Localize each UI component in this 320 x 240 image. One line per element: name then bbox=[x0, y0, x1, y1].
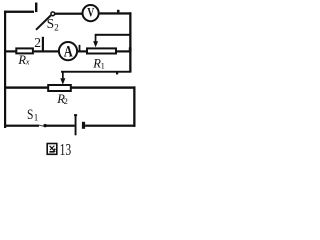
rheostat R1 slider arrow bbox=[93, 35, 98, 47]
voltmeter U-V bbox=[83, 5, 99, 22]
label Rx bbox=[17, 53, 29, 67]
node junction dot on top right wire bbox=[117, 10, 120, 13]
wire: row3 left segment bbox=[4, 86, 48, 88]
wire: row2 segment R1 to right border bbox=[116, 50, 130, 52]
svg-text:S: S bbox=[47, 16, 55, 31]
svg-text:S: S bbox=[27, 107, 33, 123]
wire: bottom row segment from border to S1 bbox=[4, 125, 39, 127]
node 2 terminal tick bbox=[42, 37, 44, 51]
wire: top row right segment bbox=[100, 12, 132, 14]
node tick at ammeter right terminal bbox=[79, 45, 81, 51]
caption character tu (figure) drawn as strokes bbox=[47, 144, 57, 155]
wire: rheostat R2 slider bracket top bbox=[61, 71, 131, 73]
switch S1 blade bbox=[39, 125, 45, 126]
wire: top row middle segment bbox=[55, 13, 82, 15]
node junction blob at border row2 bbox=[129, 47, 132, 51]
switch S1 pivot dot bbox=[43, 124, 46, 127]
label S1 bbox=[27, 107, 38, 123]
wire: row2 segment ammeter to R1 bbox=[78, 50, 88, 52]
wire: bottom row segment S1 to battery bbox=[46, 125, 74, 127]
label R1 bbox=[92, 56, 105, 70]
svg-text:2: 2 bbox=[54, 22, 59, 32]
wire: right border lower vertical bbox=[133, 86, 135, 126]
wire: rheostat R1 slider bracket top bbox=[95, 34, 132, 36]
svg-text:A: A bbox=[64, 43, 73, 60]
label R2 bbox=[56, 92, 68, 106]
resistor R1 box bbox=[87, 48, 116, 53]
node junction tick below bracket bbox=[116, 72, 118, 74]
resistor Rx box bbox=[16, 48, 33, 53]
node 1 terminal tick bbox=[35, 3, 37, 13]
resistor R2 box bbox=[48, 85, 71, 91]
wire: row2 segment from border to Rx bbox=[4, 50, 16, 52]
svg-text:1: 1 bbox=[101, 60, 105, 70]
caption number 13 bbox=[60, 140, 72, 159]
label S2 bbox=[47, 16, 59, 32]
wire: right border upper vertical bbox=[129, 12, 131, 72]
svg-text:x: x bbox=[25, 57, 30, 67]
svg-text:V: V bbox=[87, 5, 94, 20]
svg-text:2: 2 bbox=[64, 96, 68, 106]
rheostat R2 slider arrow bbox=[60, 72, 65, 84]
wire: top row left segment bbox=[4, 11, 34, 13]
switch S2 blade bbox=[36, 15, 51, 29]
battery cell short negative plate bbox=[82, 122, 85, 129]
ammeter U-A bbox=[59, 42, 77, 60]
wire: row2 segment Rx to ammeter bbox=[34, 50, 59, 52]
wire: bottom row segment battery to right border bbox=[85, 125, 135, 127]
label 2 bbox=[34, 35, 41, 50]
switch S2 pivot circle bbox=[51, 12, 55, 16]
svg-text:13: 13 bbox=[60, 140, 72, 159]
svg-text:1: 1 bbox=[34, 112, 39, 122]
battery cell long positive plate bbox=[74, 114, 77, 135]
svg-text:2: 2 bbox=[34, 35, 41, 50]
wire: left border vertical bbox=[4, 11, 6, 128]
wire: row3 right segment bbox=[71, 86, 136, 88]
